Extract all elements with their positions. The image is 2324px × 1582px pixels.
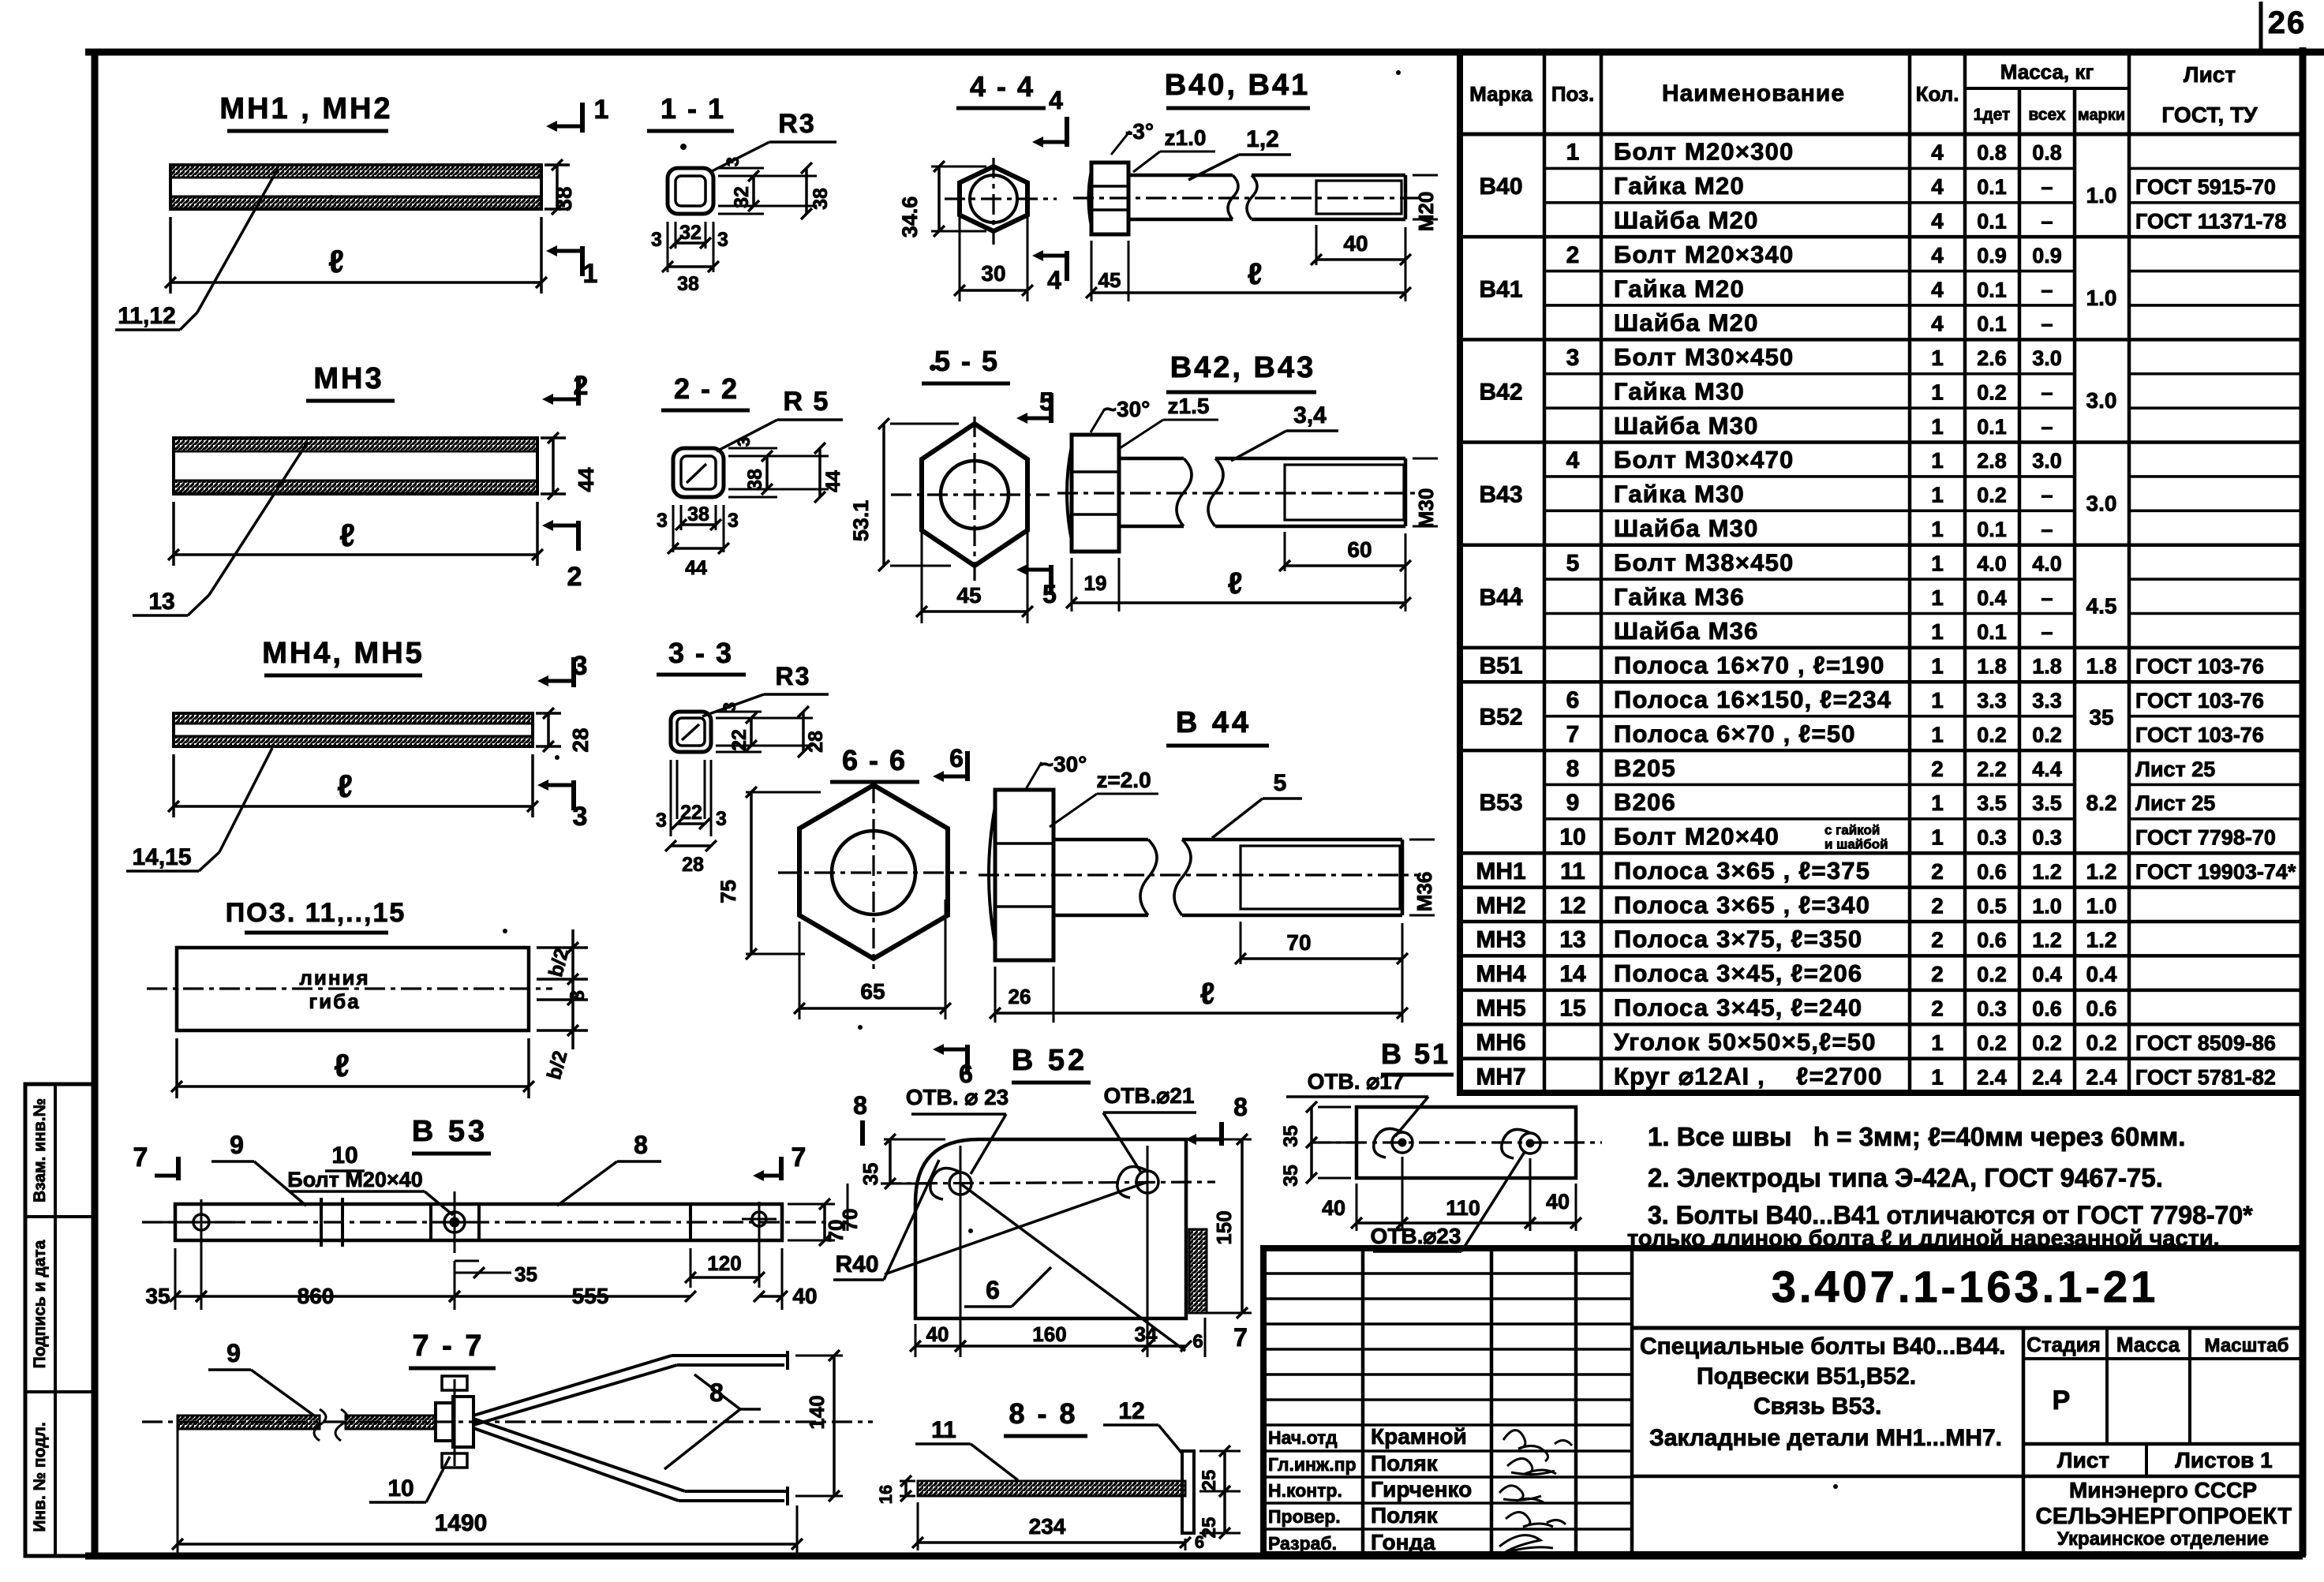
svg-text:Гонда: Гонда: [1371, 1530, 1435, 1554]
svg-text:2: 2: [1931, 997, 1944, 1021]
svg-text:4: 4: [1049, 86, 1063, 114]
B52 R40 label: [833, 1160, 939, 1280]
title block text: [1268, 1262, 2292, 1554]
svg-text:40: 40: [1546, 1190, 1570, 1214]
svg-text:0.5: 0.5: [1977, 894, 2007, 918]
svg-text:Специальные болты В40...В44.: Специальные болты В40...В44.: [1640, 1333, 2006, 1359]
svg-text:1,2: 1,2: [1246, 126, 1279, 152]
svg-text:Лист 25: Лист 25: [2135, 791, 2215, 815]
svg-text:Масса, кг: Масса, кг: [2000, 60, 2094, 84]
page number 26: [2261, 2, 2306, 49]
svg-text:1.2: 1.2: [2086, 928, 2117, 952]
bend template pos.11...15: [147, 898, 552, 1030]
svg-text:9: 9: [230, 1131, 244, 1159]
section 8-8 view: [918, 1397, 1194, 1533]
MH4 length dim l: [168, 754, 538, 817]
svg-text:3: 3: [716, 808, 727, 830]
svg-text:0.1: 0.1: [1977, 209, 2007, 233]
svg-text:19: 19: [1084, 571, 1107, 595]
svg-text:13: 13: [1559, 927, 1585, 953]
svg-text:3: 3: [723, 157, 743, 166]
svg-text:8: 8: [1233, 1093, 1248, 1121]
svg-text:Болт М30×470: Болт М30×470: [1614, 446, 1794, 473]
svg-text:30: 30: [981, 261, 1005, 286]
svg-text:8 - 8: 8 - 8: [1009, 1397, 1077, 1430]
svg-text:Стадия: Стадия: [2026, 1333, 2101, 1356]
tie B53 view: [142, 1115, 836, 1253]
svg-text:–: –: [2041, 415, 2053, 439]
svg-text:3: 3: [734, 437, 754, 447]
svg-text:ОТВ.⌀21: ОТВ.⌀21: [1104, 1083, 1195, 1108]
svg-text:9: 9: [226, 1339, 241, 1367]
svg-text:z=2.0: z=2.0: [1096, 768, 1151, 792]
svg-text:7: 7: [1566, 721, 1580, 747]
svg-text:Гайка М36: Гайка М36: [1614, 583, 1745, 611]
svg-text:всех: всех: [2028, 106, 2065, 124]
svg-text:40: 40: [926, 1322, 949, 1346]
svg-text:В51: В51: [1479, 653, 1522, 679]
svg-text:ГОСТ 103-76: ГОСТ 103-76: [2135, 689, 2264, 712]
svg-text:4: 4: [1931, 243, 1944, 267]
svg-text:110: 110: [1446, 1196, 1480, 1220]
svg-text:В206: В206: [1614, 788, 1676, 816]
svg-text:Гайка М20: Гайка М20: [1614, 275, 1745, 302]
svg-text:ℓ: ℓ: [1248, 258, 1263, 291]
svg-text:1.2: 1.2: [2032, 860, 2062, 884]
svg-text:Минэнерго СССР: Минэнерго СССР: [2069, 1478, 2257, 1502]
svg-text:СЕЛЬЭНЕРГОПРОЕКТ: СЕЛЬЭНЕРГОПРОЕКТ: [2035, 1504, 2292, 1529]
svg-text:60: 60: [1347, 537, 1372, 562]
svg-text:12: 12: [1118, 1398, 1144, 1424]
svg-text:В 53: В 53: [412, 1115, 488, 1148]
svg-text:0.6: 0.6: [2032, 997, 2062, 1021]
parts table rows: [1460, 138, 2303, 1090]
svg-text:1: 1: [1931, 346, 1944, 370]
svg-text:0.2: 0.2: [1977, 1031, 2007, 1055]
svg-text:3.0: 3.0: [2086, 491, 2117, 515]
svg-text:4 - 4: 4 - 4: [970, 70, 1035, 103]
MH4 width dim 28: [536, 708, 593, 753]
svg-text:35: 35: [145, 1284, 170, 1308]
B53 callout 10 bolt M20x40: [287, 1143, 453, 1215]
MH4 section marks 3-3: [537, 651, 587, 832]
svg-text:В52: В52: [1479, 705, 1522, 731]
svg-text:860: 860: [298, 1284, 335, 1308]
svg-text:0.6: 0.6: [2086, 997, 2117, 1021]
svg-text:0.3: 0.3: [1977, 997, 2007, 1021]
svg-text:М30: М30: [1414, 488, 1438, 529]
8-8 callouts 11,12: [915, 1398, 1182, 1480]
hanger B52 view: [881, 1044, 1215, 1341]
svg-text:4: 4: [1566, 447, 1580, 473]
svg-text:34.6: 34.6: [898, 196, 922, 238]
view 6-6 hex nut M36: [778, 744, 967, 969]
svg-text:2. Электроды типа Э-42А, ГОСТ: 2. Электроды типа Э-42А, ГОСТ 9467-75.: [1648, 1163, 2163, 1192]
svg-text:4: 4: [1931, 208, 1944, 233]
svg-text:35: 35: [515, 1262, 537, 1286]
svg-text:R 5: R 5: [784, 387, 830, 417]
svg-text:0.1: 0.1: [1977, 518, 2007, 541]
svg-text:65: 65: [860, 979, 885, 1004]
svg-text:0.1: 0.1: [1977, 415, 2007, 439]
svg-text:5: 5: [1566, 550, 1580, 576]
B53 callout 8: [557, 1131, 661, 1206]
svg-text:160: 160: [1032, 1322, 1066, 1346]
svg-text:–: –: [2041, 380, 2053, 404]
svg-text:2.8: 2.8: [1977, 449, 2007, 473]
svg-text:0.1: 0.1: [1977, 312, 2007, 336]
svg-text:Болт М20×300: Болт М20×300: [1614, 138, 1794, 166]
svg-text:0.2: 0.2: [2032, 1031, 2062, 1055]
svg-text:Гайка М30: Гайка М30: [1614, 481, 1745, 508]
section 7-7 fork view: [142, 1330, 873, 1505]
svg-text:150: 150: [1212, 1210, 1236, 1244]
embedded strip MH4, MH5 view: [174, 637, 533, 746]
svg-text:ГОСТ 5915-70: ГОСТ 5915-70: [2135, 175, 2276, 199]
5-5 dim 53.1: [849, 418, 959, 571]
svg-text:МН1 , МН2: МН1 , МН2: [219, 92, 392, 125]
svg-text:40: 40: [1343, 231, 1368, 256]
svg-text:0.2: 0.2: [2086, 1030, 2117, 1055]
MH1 section marks 1-1: [546, 95, 608, 289]
section 1-1 square tube: [647, 92, 836, 214]
svg-text:Гайка М20: Гайка М20: [1614, 172, 1745, 200]
svg-text:13: 13: [148, 589, 174, 615]
svg-text:11,12: 11,12: [118, 303, 175, 329]
svg-text:3.0: 3.0: [2032, 346, 2062, 370]
svg-text:6: 6: [1566, 687, 1580, 713]
svg-text:0.1: 0.1: [1977, 620, 2007, 644]
svg-text:2: 2: [574, 371, 589, 401]
svg-text:9: 9: [1566, 790, 1580, 816]
svg-text:4.0: 4.0: [2032, 552, 2062, 575]
svg-text:Марка: Марка: [1469, 82, 1532, 106]
B51 labels otv.17, otv.23: [1286, 1069, 1525, 1251]
svg-text:1.2: 1.2: [2086, 859, 2117, 884]
svg-text:38: 38: [744, 469, 766, 491]
svg-text:1: 1: [1931, 825, 1944, 850]
svg-text:Крамной: Крамной: [1371, 1424, 1467, 1449]
svg-text:ℓ: ℓ: [339, 518, 355, 553]
svg-text:2: 2: [1931, 757, 1944, 781]
B53 bottom dims 35,860,555,120,40,35,70: [145, 1199, 848, 1310]
svg-text:44: 44: [822, 470, 844, 492]
svg-text:МН1: МН1: [1476, 858, 1525, 884]
svg-text:26: 26: [1009, 985, 1031, 1008]
B40 dims M20, 40, 45, l: [1086, 175, 1438, 301]
svg-text:34: 34: [1135, 1322, 1158, 1346]
svg-text:35: 35: [859, 1163, 882, 1186]
svg-text:0.6: 0.6: [1977, 929, 2007, 952]
svg-text:гиба: гиба: [309, 989, 360, 1013]
svg-text:8.2: 8.2: [2086, 791, 2117, 815]
svg-text:0.3: 0.3: [2032, 826, 2062, 850]
svg-text:2 - 2: 2 - 2: [674, 372, 739, 405]
svg-text:Наименование: Наименование: [1662, 80, 1845, 107]
svg-text:8: 8: [634, 1131, 648, 1159]
svg-text:1.8: 1.8: [1977, 655, 2007, 679]
svg-text:40: 40: [792, 1284, 817, 1308]
svg-text:3.5: 3.5: [2032, 791, 2062, 815]
svg-text:Полоса 3×65 , ℓ=340: Полоса 3×65 , ℓ=340: [1614, 891, 1870, 918]
svg-text:1: 1: [1931, 654, 1944, 679]
svg-text:Масса: Масса: [2116, 1333, 2180, 1356]
svg-text:МН4: МН4: [1476, 961, 1526, 987]
bolt B42,B43 side view: [1057, 351, 1420, 552]
svg-text:3: 3: [1566, 345, 1580, 371]
svg-text:ГОСТ 103-76: ГОСТ 103-76: [2135, 723, 2264, 746]
4-4 dim 34.6: [898, 161, 986, 237]
svg-text:70: 70: [1286, 930, 1311, 955]
svg-text:и шайбой: и шайбой: [1824, 837, 1888, 852]
7-7 dim 1490: [172, 1430, 803, 1556]
svg-text:Н.контр.: Н.контр.: [1268, 1480, 1342, 1501]
bolt B44 side view: [979, 706, 1420, 960]
svg-text:1.0: 1.0: [2086, 893, 2117, 918]
svg-text:ГОСТ 7798-70: ГОСТ 7798-70: [2135, 826, 2276, 850]
svg-text:11: 11: [931, 1417, 956, 1443]
B51 dims 35,35,40,110,40: [1280, 1101, 1581, 1231]
svg-text:–: –: [2041, 312, 2053, 336]
svg-text:3: 3: [573, 802, 588, 832]
B42 dims M30, 60, 19, l: [1066, 458, 1438, 611]
svg-text:Лист: Лист: [2057, 1448, 2109, 1472]
svg-text:Поз.: Поз.: [1551, 82, 1594, 106]
svg-text:Лист: Лист: [2184, 62, 2236, 87]
B40 section marks 4: [1032, 86, 1067, 294]
svg-text:Болт М30×450: Болт М30×450: [1614, 343, 1794, 371]
B44 dims M36, 70, 26, l: [990, 840, 1436, 1023]
B52 labels otv.23, otv.21, marks 8: [853, 1083, 1248, 1174]
svg-text:2.4: 2.4: [1977, 1065, 2007, 1089]
svg-text:Нач.отд: Нач.отд: [1268, 1427, 1338, 1448]
svg-text:44: 44: [685, 557, 707, 579]
svg-text:1: 1: [1931, 448, 1944, 473]
svg-text:22: 22: [680, 802, 702, 824]
svg-text:120: 120: [707, 1251, 741, 1275]
svg-text:z1.0: z1.0: [1165, 125, 1207, 150]
svg-text:Связь В53.: Связь В53.: [1753, 1393, 1881, 1419]
B44 labels 30deg, z=2.0, callout 5: [1026, 752, 1302, 838]
svg-text:1: 1: [1931, 1030, 1944, 1055]
svg-text:0.2: 0.2: [2032, 723, 2062, 746]
bolt B40,B41 side view: [1073, 69, 1420, 234]
svg-text:555: 555: [572, 1284, 609, 1308]
title block: [1263, 1248, 2303, 1554]
8-8 dims 25,25,16,234,6: [876, 1445, 1241, 1552]
svg-text:3.0: 3.0: [2086, 388, 2117, 413]
section 2-2 dims: [657, 437, 844, 579]
svg-text:1: 1: [594, 95, 609, 125]
7-7 callout 8: [664, 1374, 761, 1469]
svg-text:с гайкой: с гайкой: [1824, 823, 1880, 838]
svg-text:4.4: 4.4: [2032, 757, 2062, 781]
svg-text:–: –: [2041, 209, 2053, 233]
svg-text:Полоса 6×70 , ℓ=50: Полоса 6×70 , ℓ=50: [1614, 720, 1856, 747]
svg-text:26: 26: [2268, 6, 2307, 40]
svg-text:10: 10: [331, 1143, 357, 1169]
svg-text:32: 32: [731, 186, 753, 208]
svg-text:1490: 1490: [435, 1510, 488, 1536]
svg-text:2: 2: [1931, 893, 1944, 918]
svg-text:5: 5: [1274, 770, 1287, 796]
svg-text:0.8: 0.8: [2032, 141, 2062, 165]
svg-text:В40, В41: В40, В41: [1165, 69, 1311, 102]
svg-text:1: 1: [1931, 585, 1944, 610]
svg-text:–: –: [2041, 484, 2053, 507]
svg-text:Закладные детали МН1...МН7.: Закладные детали МН1...МН7.: [1649, 1425, 2002, 1451]
svg-text:16: 16: [876, 1485, 896, 1504]
svg-text:4: 4: [1047, 266, 1061, 294]
svg-text:7: 7: [792, 1143, 806, 1172]
left margin column labels: [25, 1084, 95, 1556]
svg-text:5: 5: [1039, 387, 1053, 416]
svg-text:Р: Р: [2053, 1386, 2071, 1416]
svg-text:Болт М20×40: Болт М20×40: [1614, 823, 1779, 851]
svg-text:0.6: 0.6: [1977, 860, 2007, 884]
section 3-3 square tube: [657, 637, 829, 752]
svg-text:марки: марки: [2078, 107, 2125, 124]
svg-text:В53: В53: [1479, 790, 1522, 816]
svg-text:линия: линия: [299, 966, 369, 989]
svg-text:Украинское отделение: Украинское отделение: [2057, 1528, 2269, 1550]
svg-text:1: 1: [1931, 619, 1944, 644]
svg-text:10: 10: [1559, 825, 1585, 851]
svg-text:Гирченко: Гирченко: [1371, 1477, 1472, 1502]
svg-text:Взам. инв.№: Взам. инв.№: [31, 1098, 49, 1202]
svg-text:3.3: 3.3: [2032, 689, 2062, 712]
B52 crossing leaders and callouts 6,7: [885, 1182, 1248, 1352]
svg-text:3: 3: [728, 510, 739, 532]
svg-text:~30°: ~30°: [1041, 752, 1087, 776]
svg-text:~30°: ~30°: [1104, 397, 1151, 421]
svg-text:Полоса 16×70 , ℓ=190: Полоса 16×70 , ℓ=190: [1614, 652, 1885, 679]
svg-text:11: 11: [1560, 858, 1585, 884]
svg-text:–: –: [2041, 620, 2053, 644]
svg-text:4: 4: [1931, 174, 1944, 199]
svg-text:ℓ: ℓ: [334, 1049, 350, 1083]
svg-text:4.5: 4.5: [2086, 594, 2117, 619]
7-7 callout 9: [208, 1339, 314, 1416]
7-7 callout 10: [369, 1457, 450, 1502]
svg-text:1.8: 1.8: [2086, 654, 2117, 679]
svg-text:Полоса 3×65 , ℓ=375: Полоса 3×65 , ℓ=375: [1614, 857, 1870, 884]
svg-text:Шайба М20: Шайба М20: [1614, 206, 1759, 234]
view 5-5 hex nut M30: [891, 345, 1050, 581]
svg-text:2: 2: [1931, 859, 1944, 884]
section 1-1 dims: [651, 157, 832, 295]
svg-text:Болт М38×450: Болт М38×450: [1614, 548, 1794, 576]
svg-text:3: 3: [651, 229, 662, 251]
svg-text:МН2: МН2: [1476, 892, 1525, 918]
svg-text:53.1: 53.1: [849, 500, 873, 542]
svg-text:3: 3: [573, 651, 588, 681]
svg-text:6 - 6: 6 - 6: [842, 744, 907, 776]
svg-text:1дет: 1дет: [1974, 106, 2011, 124]
svg-text:Листов 1: Листов 1: [2175, 1448, 2272, 1472]
6-6 dim 75: [717, 787, 821, 959]
svg-text:5: 5: [1042, 580, 1057, 608]
svg-text:В 51: В 51: [1381, 1038, 1450, 1070]
svg-text:Кол.: Кол.: [1916, 82, 1959, 106]
hanger B51 view: [1310, 1038, 1602, 1178]
svg-text:0.4: 0.4: [1977, 586, 2007, 610]
svg-text:6: 6: [986, 1276, 1000, 1304]
svg-text:35: 35: [1280, 1165, 1302, 1187]
svg-text:Шайба М30: Шайба М30: [1614, 412, 1759, 439]
svg-text:МН7: МН7: [1476, 1064, 1525, 1090]
MH4 callout 14,15: [126, 748, 272, 871]
svg-text:15: 15: [1559, 996, 1585, 1022]
svg-text:ГОСТ 5781-82: ГОСТ 5781-82: [2135, 1065, 2276, 1089]
B42 section marks 5: [1016, 387, 1057, 608]
5-5 dim 45: [916, 513, 1033, 623]
MH3 width dim 44: [541, 432, 598, 499]
svg-text:Поляк: Поляк: [1371, 1451, 1439, 1475]
MH1 length dim l: [165, 217, 547, 294]
MH1 callout 11,12: [115, 169, 278, 330]
svg-text:R40: R40: [835, 1251, 878, 1277]
svg-text:40: 40: [1322, 1196, 1345, 1220]
svg-text:М20: М20: [1414, 192, 1438, 232]
svg-text:1: 1: [1931, 414, 1944, 439]
svg-text:1 - 1: 1 - 1: [661, 92, 725, 125]
svg-text:6: 6: [949, 744, 964, 772]
svg-text:–: –: [2041, 586, 2053, 610]
svg-text:–: –: [2041, 175, 2053, 199]
svg-text:2.2: 2.2: [1977, 757, 2007, 781]
svg-text:Полоса 3×45, ℓ=206: Полоса 3×45, ℓ=206: [1614, 959, 1862, 987]
svg-text:1: 1: [1566, 140, 1580, 166]
svg-text:В40: В40: [1479, 174, 1522, 200]
svg-text:Провер.: Провер.: [1268, 1506, 1341, 1527]
svg-text:14: 14: [1559, 961, 1586, 987]
svg-text:Разраб.: Разраб.: [1268, 1533, 1337, 1554]
svg-text:4: 4: [1931, 277, 1944, 301]
svg-text:70: 70: [838, 1209, 862, 1232]
B42 labels 30deg, z1.5, callout 3,4: [1091, 394, 1338, 461]
svg-text:1: 1: [1931, 483, 1944, 507]
svg-text:1: 1: [1931, 380, 1944, 404]
svg-text:3. Болты В40...В41 отличаются: 3. Болты В40...В41 отличаются от ГОСТ 77…: [1648, 1201, 2253, 1229]
svg-text:1.0: 1.0: [2032, 894, 2062, 918]
svg-text:1. Все швы h = 3мм; ℓ=40мм ч: 1. Все швы h = 3мм; ℓ=40мм через 60мм.: [1648, 1122, 2185, 1151]
svg-text:Полоса 3×75, ℓ=350: Полоса 3×75, ℓ=350: [1614, 926, 1862, 953]
section 3-3 dims: [656, 702, 827, 876]
svg-text:В41: В41: [1479, 276, 1522, 302]
svg-text:1: 1: [1931, 688, 1944, 712]
svg-text:0.2: 0.2: [1977, 484, 2007, 507]
svg-text:1.0: 1.0: [2086, 183, 2117, 208]
svg-text:1: 1: [1931, 551, 1944, 575]
svg-text:3 - 3: 3 - 3: [668, 637, 733, 669]
svg-text:ℓ: ℓ: [337, 769, 353, 804]
svg-text:0.1: 0.1: [1977, 175, 2007, 199]
svg-text:МН5: МН5: [1476, 996, 1525, 1022]
svg-text:22: 22: [728, 729, 750, 751]
svg-text:4: 4: [1931, 140, 1944, 165]
svg-text:6: 6: [959, 1060, 973, 1088]
section 2-2 square tube: [661, 372, 843, 497]
svg-text:Масштаб: Масштаб: [2205, 1335, 2289, 1356]
B53 callout 9: [211, 1131, 306, 1206]
svg-text:МН4, МН5: МН4, МН5: [262, 637, 425, 670]
svg-text:4.0: 4.0: [1977, 552, 2007, 575]
signatures: [1499, 1431, 1572, 1553]
svg-text:1.8: 1.8: [2032, 655, 2062, 679]
svg-text:Уголок 50×50×5,ℓ=50: Уголок 50×50×5,ℓ=50: [1614, 1028, 1877, 1056]
noise: [329, 70, 1838, 1489]
